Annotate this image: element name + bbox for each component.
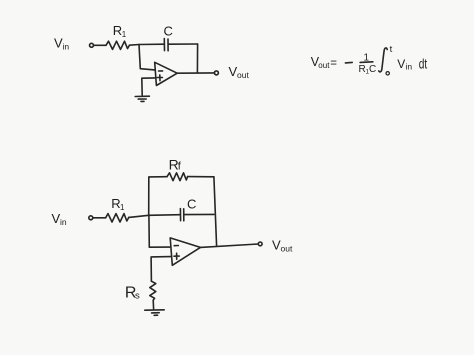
- svg-text:R: R: [113, 23, 122, 38]
- svg-text:1: 1: [120, 203, 125, 212]
- svg-text:in: in: [60, 217, 67, 227]
- svg-text:s: s: [135, 290, 140, 301]
- svg-text:out: out: [318, 61, 330, 70]
- svg-text:V: V: [397, 57, 405, 71]
- svg-text:dt: dt: [419, 56, 428, 72]
- svg-text:out: out: [281, 244, 293, 254]
- svg-text:t: t: [390, 44, 393, 55]
- svg-text:C: C: [187, 197, 196, 212]
- svg-text:in: in: [63, 41, 70, 51]
- svg-text:out: out: [237, 70, 249, 80]
- svg-text:1: 1: [122, 30, 127, 39]
- svg-text:in: in: [406, 62, 413, 72]
- svg-text:C: C: [164, 24, 173, 39]
- svg-text:=: =: [330, 57, 337, 69]
- svg-text:C: C: [369, 64, 376, 75]
